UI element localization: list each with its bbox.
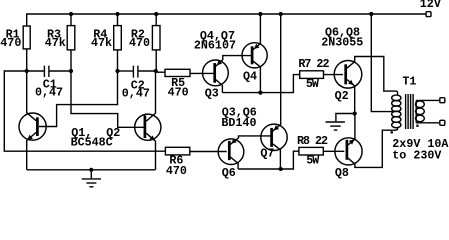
svg-text:to 230V: to 230V	[392, 148, 441, 162]
svg-text:T1: T1	[402, 75, 416, 89]
svg-text:Q8: Q8	[335, 166, 349, 180]
svg-text:12V: 12V	[420, 0, 441, 11]
svg-text:Q6: Q6	[222, 166, 236, 180]
svg-text:470: 470	[0, 36, 21, 50]
svg-text:R7 22: R7 22	[298, 57, 329, 71]
svg-text:470: 470	[168, 85, 189, 99]
svg-text:Q7: Q7	[260, 146, 274, 160]
svg-text:47k: 47k	[45, 36, 66, 50]
svg-text:Q3: Q3	[205, 87, 219, 101]
svg-text:R8 22: R8 22	[297, 134, 328, 148]
svg-text:Q2: Q2	[335, 89, 349, 103]
svg-text:0,47: 0,47	[35, 86, 63, 100]
svg-text:BD140: BD140	[221, 116, 256, 130]
svg-text:470: 470	[129, 36, 150, 50]
svg-text:5W: 5W	[306, 77, 320, 91]
svg-text:470: 470	[166, 164, 187, 178]
svg-text:47k: 47k	[91, 36, 112, 50]
svg-text:0,47: 0,47	[122, 87, 150, 101]
svg-text:2N3055: 2N3055	[321, 36, 363, 50]
svg-text:Q4: Q4	[243, 69, 257, 83]
svg-text:BC548C: BC548C	[71, 136, 113, 150]
svg-text:2N6107: 2N6107	[194, 39, 236, 53]
svg-text:5W: 5W	[306, 154, 320, 168]
